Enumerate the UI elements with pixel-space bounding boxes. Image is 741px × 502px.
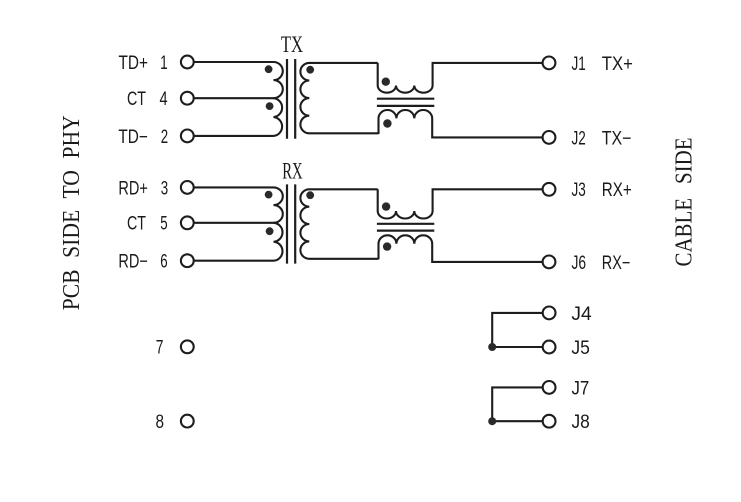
svg-text:J4: J4	[571, 304, 592, 325]
choke TX core	[377, 99, 434, 106]
svg-text:CABLE SIDE: CABLE SIDE	[672, 138, 698, 267]
transformer RX core	[287, 184, 295, 263]
svg-text:6: 6	[160, 252, 167, 273]
choke RX core	[377, 224, 434, 231]
junction dot J8	[488, 417, 496, 425]
pin J1 terminal circle	[543, 57, 556, 70]
svg-text:4: 4	[159, 89, 167, 110]
svg-text:TX+: TX+	[602, 54, 633, 75]
pin J7 terminal circle	[543, 381, 556, 394]
pin 4 terminal circle	[181, 92, 194, 105]
wire pin3 to RX primary	[194, 186, 274, 188]
wire pin6 to RX primary	[194, 260, 274, 262]
svg-text:CT: CT	[127, 214, 146, 235]
svg-text:J7: J7	[572, 378, 590, 399]
polarity dot TX primary lower	[266, 102, 274, 110]
transformer RX secondary winding	[300, 189, 378, 259]
svg-text:J5: J5	[571, 338, 590, 359]
polarity dot TX secondary	[306, 66, 314, 74]
polarity dot RX primary upper	[265, 191, 273, 199]
wire pin2 to TX primary	[194, 135, 274, 137]
svg-text:8: 8	[156, 412, 165, 433]
wire J7 to J8 junction	[492, 387, 543, 421]
transformer RX primary upper winding	[274, 187, 283, 222]
polarity dot choke TX top	[382, 78, 390, 86]
svg-text:TD−: TD−	[118, 127, 148, 148]
svg-text:RX: RX	[282, 159, 303, 184]
svg-text:3: 3	[161, 178, 168, 199]
polarity dot choke RX top	[382, 202, 390, 210]
wire pin5 CT to RX primary	[194, 222, 274, 224]
pin J5 terminal circle	[543, 341, 556, 354]
pin 8 terminal circle	[181, 415, 194, 428]
polarity dot TX primary upper	[265, 65, 273, 73]
svg-text:RX−: RX−	[602, 253, 631, 274]
svg-text:J6: J6	[572, 253, 587, 274]
wire pin4 CT to TX primary	[194, 97, 274, 99]
svg-text:J3: J3	[572, 180, 586, 201]
choke TX bottom winding with wire to J2	[379, 110, 543, 137]
polarity dot choke TX bottom	[383, 119, 391, 127]
transformer TX primary lower winding	[274, 98, 283, 136]
wire J4 to J5 junction	[492, 313, 543, 347]
pin 1 terminal circle	[181, 56, 194, 69]
pin J4 terminal circle	[543, 307, 556, 320]
choke RX top winding with wire to J3	[378, 189, 543, 218]
svg-text:TX−: TX−	[602, 128, 632, 149]
svg-text:TD+: TD+	[119, 53, 149, 74]
pin J3 terminal circle	[543, 183, 556, 196]
svg-text:J2: J2	[572, 128, 586, 149]
pin 3 terminal circle	[181, 181, 194, 194]
svg-text:RD−: RD−	[118, 252, 148, 273]
svg-text:CT: CT	[127, 89, 146, 110]
polarity dot RX primary lower	[266, 227, 274, 235]
svg-text:RX+: RX+	[602, 180, 632, 201]
choke TX top winding with wire to J1	[378, 63, 543, 93]
choke RX bottom winding with wire to J6	[379, 235, 543, 262]
svg-text:PCB SIDE TO PHY: PCB SIDE TO PHY	[59, 115, 85, 310]
pin J6 terminal circle	[543, 256, 556, 269]
transformer TX core	[287, 59, 295, 139]
svg-text:RD+: RD+	[118, 178, 148, 199]
pin 7 terminal circle	[181, 340, 194, 353]
pin J2 terminal circle	[543, 131, 556, 144]
pin 6 terminal circle	[181, 254, 194, 267]
pin J8 terminal circle	[543, 415, 556, 428]
transformer TX primary upper winding	[274, 62, 283, 98]
svg-text:J1: J1	[572, 54, 586, 75]
transformer TX secondary winding	[300, 63, 378, 133]
junction dot J5	[488, 343, 496, 351]
svg-text:J8: J8	[572, 412, 590, 433]
transformer RX primary lower winding	[274, 223, 283, 261]
svg-text:2: 2	[161, 127, 168, 148]
wire pin1 to TX primary	[194, 61, 274, 63]
svg-text:TX: TX	[281, 32, 304, 57]
pin 5 terminal circle	[181, 216, 194, 229]
polarity dot RX secondary	[306, 191, 314, 199]
svg-text:1: 1	[160, 53, 168, 74]
svg-text:5: 5	[160, 214, 167, 235]
pin 2 terminal circle	[181, 130, 194, 143]
svg-text:7: 7	[156, 338, 164, 359]
polarity dot choke RX bottom	[383, 242, 391, 250]
